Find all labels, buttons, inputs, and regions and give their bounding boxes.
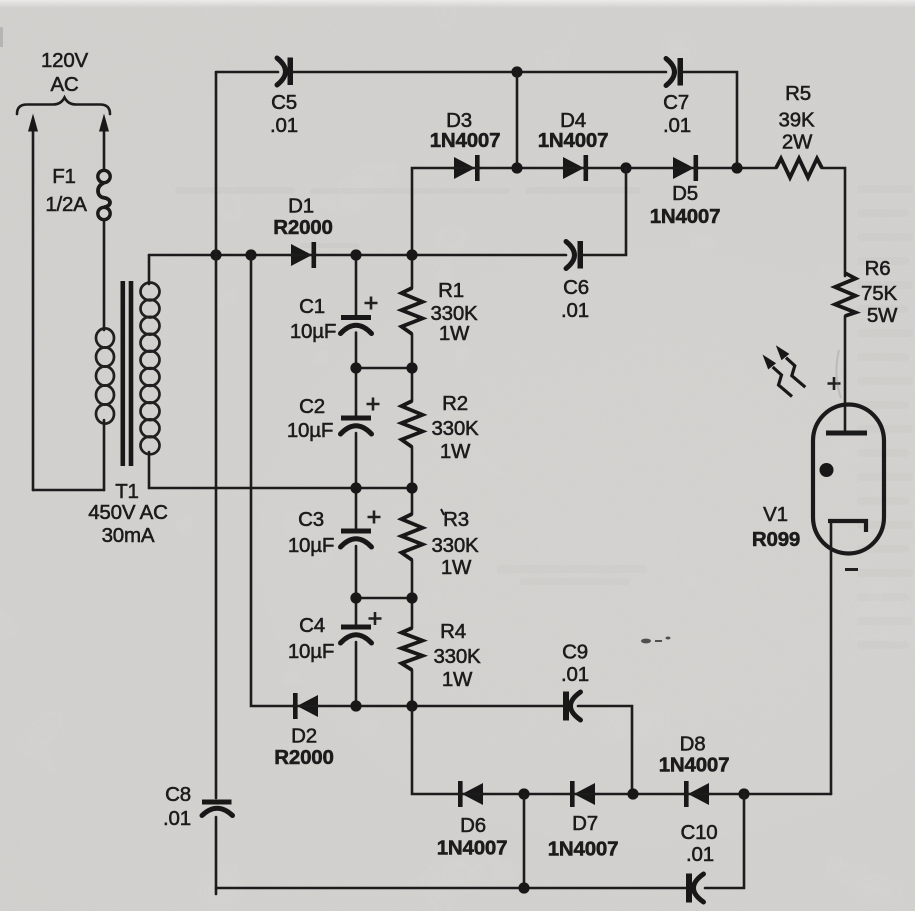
wire D3 to D4 <box>480 167 563 170</box>
label C7 .01 <box>663 91 691 137</box>
junction rung1 at cap ladder <box>350 362 361 373</box>
junction D1 row at resistor ladder top <box>406 249 417 260</box>
junction rung2 at resistor ladder <box>406 482 417 493</box>
junction D1 row at second drop <box>245 249 256 260</box>
wire C9 corner down to bottom diode row <box>578 706 632 794</box>
label C6 .01 <box>561 276 589 322</box>
wire diode row left vertical from ladder <box>412 168 454 255</box>
tube V1 cathode electrode <box>828 521 866 532</box>
diode D8 <box>684 781 709 807</box>
capacitor C6 <box>566 241 583 269</box>
diode D3 <box>454 155 480 181</box>
label C10 .01 <box>680 821 717 866</box>
resistor R4 <box>402 598 423 706</box>
wire drop from bottom diode row junction to bottom rail <box>523 794 526 888</box>
ink tick near R3 <box>441 509 444 515</box>
wire left AC line with arrow <box>28 114 38 491</box>
junction rung2 at cap ladder <box>350 482 361 493</box>
wire drop from D8 junction to bottom rail corner <box>705 794 744 888</box>
wire resistor ladder bottom down to bottom diode row <box>412 706 458 794</box>
transformer T1 primary winding <box>96 328 114 490</box>
junction top rail to D3 drop <box>511 66 522 77</box>
wire D4 to D5 <box>588 167 673 170</box>
wire rung stage3 <box>356 597 412 600</box>
wire left rail vertical lower (C8 to bottom rail) <box>215 817 218 894</box>
resistor R3 <box>402 488 423 598</box>
capacitor C4 <box>341 598 372 706</box>
capacitor C10 <box>686 874 704 903</box>
label T1 450V AC 30mA <box>88 480 168 547</box>
tube V1 anode electrode <box>826 431 867 436</box>
label D3 1N4007 <box>430 109 501 152</box>
label D2 R2000 <box>274 725 333 770</box>
wire rung stage2 from transformer secondary <box>149 487 412 490</box>
wire D2 to C9 <box>318 705 564 708</box>
label D4 1N4007 <box>538 109 609 152</box>
label R1 330K 1W <box>430 279 478 345</box>
wire top rail left segment <box>216 71 278 74</box>
label R6 75K 5W <box>861 257 898 327</box>
junction diode row at C5 drop <box>511 162 522 173</box>
transformer T1 secondary winding <box>141 255 160 488</box>
label C8 .01 <box>163 783 191 830</box>
fuse F1 <box>98 170 110 219</box>
label R5 39K 2W <box>779 82 815 154</box>
label C9 .01 <box>561 641 589 687</box>
junction D1 row at cap ladder top <box>350 249 361 260</box>
wire D1 row from secondary to D1 <box>149 254 291 257</box>
capacitor C2 <box>341 368 372 488</box>
junction D2 row at resistor ladder bottom <box>406 700 417 711</box>
diode D4 <box>563 155 588 181</box>
junction bottom row first drop <box>518 788 529 799</box>
wire top rail middle segment <box>293 71 666 74</box>
capacitor C5 <box>277 58 293 86</box>
diode D1 <box>291 242 316 268</box>
diode D7 <box>570 781 595 807</box>
capacitor C8 <box>202 800 233 816</box>
label C4 10uF + <box>288 612 382 663</box>
brace for 120V AC input <box>17 98 110 115</box>
wire R5 to right rail corner <box>822 168 845 276</box>
junction D2 row at cap ladder bottom <box>350 700 361 711</box>
resistor R1 <box>402 255 423 368</box>
label F1 1/2A <box>45 165 87 216</box>
ink smudge near C9 label <box>641 637 671 644</box>
wire bottom rail <box>216 887 687 890</box>
capacitor C9 <box>563 692 581 721</box>
label C1 10uF + <box>290 295 378 343</box>
label R3 330K 1W <box>431 508 479 579</box>
diode D6 <box>458 781 483 807</box>
junction bottom row at C10 drop <box>738 788 749 799</box>
label C3 10uF + <box>288 508 381 557</box>
capacitor C1 <box>341 255 372 368</box>
junction diode row at C7 drop <box>731 162 742 173</box>
diode D5 <box>673 155 698 181</box>
wire left rail vertical upper (top rail to C8) <box>215 72 218 798</box>
wire tube cathode down to bottom diode row <box>830 521 833 794</box>
tube V1 envelope <box>813 405 884 554</box>
radiation arrows into tube <box>763 345 806 396</box>
wire drop from top rail to diode row <box>516 72 519 168</box>
node 120V AC input label <box>41 49 89 96</box>
label D7 1N4007 <box>548 812 619 861</box>
label D8 1N4007 <box>659 733 730 777</box>
wire fuse to transformer primary <box>103 220 106 330</box>
tube V1 dot <box>820 463 834 477</box>
wire D6 to D7 <box>483 793 570 796</box>
wire C6 up to diode row junction <box>583 168 626 255</box>
label D6 1N4007 <box>437 814 508 860</box>
label V1 R099 <box>752 503 800 551</box>
junction D1 row at left rail <box>210 249 221 260</box>
label R4 330K 1W <box>433 620 481 691</box>
label C5 .01 <box>270 91 298 137</box>
wire D1 to C6 <box>316 254 566 257</box>
wire bottom AC to transformer primary <box>33 489 104 492</box>
wire right AC line with arrow <box>99 114 109 171</box>
junction bottom row at C9 drop <box>627 788 638 799</box>
label + terminal of tube <box>828 377 841 390</box>
capacitor C3 <box>341 488 372 598</box>
resistor R5 <box>776 159 822 178</box>
junction rung3 at cap ladder <box>350 592 361 603</box>
capacitor C7 <box>666 58 683 86</box>
wire D5 to R5 <box>698 167 776 170</box>
junction bottom rail at drop <box>518 882 529 893</box>
resistor R2 <box>402 368 423 488</box>
junction rung3 at resistor ladder <box>406 592 417 603</box>
wire D7 to D8 <box>595 793 684 796</box>
label D1 R2000 <box>273 195 332 240</box>
label C2 10uF + <box>287 395 380 442</box>
diode D2 <box>293 693 318 719</box>
label - terminal of tube <box>845 568 858 571</box>
junction diode row to C6 drop <box>620 162 631 173</box>
label D5 1N4007 <box>650 182 721 228</box>
wire top rail right segment down to diode row <box>683 72 737 168</box>
junction rung1 at resistor ladder <box>406 362 417 373</box>
wire R6 to tube anode <box>844 316 847 433</box>
wire D8 to tube cathode drop <box>709 793 831 796</box>
resistor R6 <box>835 273 856 316</box>
wire second drop from D1 row to D2 row <box>251 255 293 706</box>
transformer T1 core <box>121 281 134 466</box>
wire rung stage1 <box>356 367 412 370</box>
label R2 330K 1W <box>431 392 479 463</box>
